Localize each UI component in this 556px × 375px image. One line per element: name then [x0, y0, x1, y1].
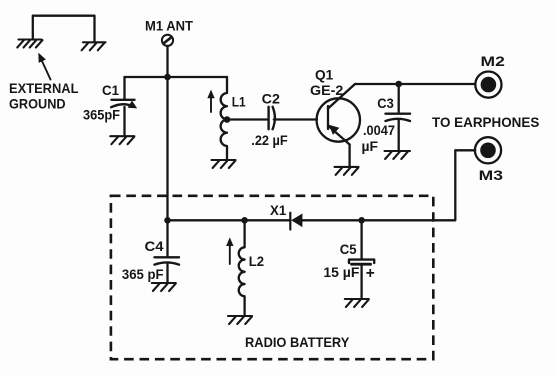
svg-text:M1 ANT: M1 ANT	[145, 18, 193, 34]
label C1 value 365pF	[83, 107, 120, 122]
ground external right	[82, 42, 106, 50]
svg-text:C1: C1	[102, 82, 119, 98]
label C2 value .22uF	[251, 133, 287, 148]
ground below C1	[110, 136, 134, 144]
label M2	[481, 53, 506, 69]
inductor L2	[239, 220, 245, 315]
enclosure RADIO BATTERY dashed box	[111, 196, 433, 359]
ground below L2	[228, 316, 252, 324]
terminal M3	[475, 137, 501, 163]
svg-text:GE-2: GE-2	[310, 82, 344, 98]
wire external-ground bracket	[33, 16, 95, 43]
wire L1 tap to C2	[227, 118, 268, 120]
label C5 polarity +	[366, 265, 375, 282]
svg-text:.0047: .0047	[363, 123, 395, 138]
wire M1 to bottom bus	[166, 46, 168, 220]
label M1 ANT	[145, 18, 193, 34]
junction dot bottom-left	[164, 217, 171, 224]
capacitor C5	[349, 220, 374, 298]
svg-text:GROUND: GROUND	[9, 96, 66, 112]
diode X1	[290, 213, 302, 230]
svg-text:RADIO BATTERY: RADIO BATTERY	[245, 334, 350, 350]
svg-text:15 µF: 15 µF	[323, 265, 359, 280]
label EXTERNAL GROUND	[9, 80, 79, 112]
label C3 value uF	[362, 139, 379, 154]
label C4	[145, 238, 164, 254]
junction dot collector bus	[395, 81, 402, 88]
capacitor C1	[111, 77, 137, 136]
label C4 value 365 pF	[122, 267, 164, 282]
terminal M1	[162, 35, 173, 46]
svg-text:C2: C2	[262, 90, 280, 106]
junction dot top bus	[164, 74, 171, 81]
label L1	[232, 94, 246, 110]
ground below Q1	[335, 167, 359, 175]
svg-text:Q1: Q1	[315, 67, 333, 83]
svg-text:EXTERNAL: EXTERNAL	[9, 80, 79, 96]
wire top bus	[125, 76, 228, 78]
svg-text:.22 µF: .22 µF	[251, 133, 287, 148]
svg-text:M2: M2	[481, 53, 506, 69]
tuning arrow L1	[207, 90, 214, 112]
wire Q1 collector to M2	[355, 83, 475, 85]
svg-text:X1: X1	[270, 203, 287, 218]
ground below L1	[212, 160, 236, 168]
inductor L1	[221, 77, 227, 160]
capacitor C4	[155, 220, 180, 282]
label TO EARPHONES	[432, 114, 539, 130]
svg-text:L2: L2	[249, 253, 264, 269]
svg-text:365 pF: 365 pF	[122, 267, 164, 282]
svg-text:C4: C4	[145, 238, 164, 254]
label C1	[102, 82, 119, 98]
wire C2 to Q1 base	[274, 118, 317, 120]
wire bottom bus	[168, 219, 291, 221]
ground below C5	[345, 299, 369, 307]
junction dot C5 top	[358, 217, 365, 224]
ground below C4	[152, 283, 176, 291]
svg-text:µF: µF	[362, 139, 379, 154]
label Q1	[315, 67, 333, 83]
tuning arrow L2	[226, 237, 233, 264]
label X1	[270, 203, 287, 218]
wire M3 to bottom bus	[302, 150, 475, 220]
capacitor C3	[386, 84, 411, 151]
label C2	[262, 90, 280, 106]
transistor Q1	[317, 84, 360, 145]
svg-text:M3: M3	[479, 167, 504, 183]
label Q1 type GE-2	[310, 82, 344, 98]
ground below C3	[385, 151, 411, 159]
svg-text:C3: C3	[377, 95, 394, 111]
svg-text:365pF: 365pF	[83, 107, 120, 122]
label M3	[479, 167, 504, 183]
junction dot L1 tap	[224, 116, 231, 123]
svg-text:C5: C5	[340, 241, 357, 257]
wire Q1 emitter to ground	[348, 145, 350, 167]
capacitor C2	[269, 107, 275, 129]
svg-text:TO EARPHONES: TO EARPHONES	[432, 114, 539, 130]
label C3 value .0047	[363, 123, 395, 138]
label L2	[249, 253, 264, 269]
terminal M2	[475, 72, 501, 98]
svg-text:+: +	[366, 265, 375, 282]
label RADIO BATTERY	[245, 334, 350, 350]
label C3	[377, 95, 394, 111]
svg-text:L1: L1	[232, 94, 246, 110]
ground external left	[17, 40, 42, 48]
label C5 value 15 uF	[323, 265, 359, 280]
label C5	[340, 241, 357, 257]
label arrow to external ground	[38, 53, 50, 80]
junction dot L2 top	[241, 217, 248, 224]
